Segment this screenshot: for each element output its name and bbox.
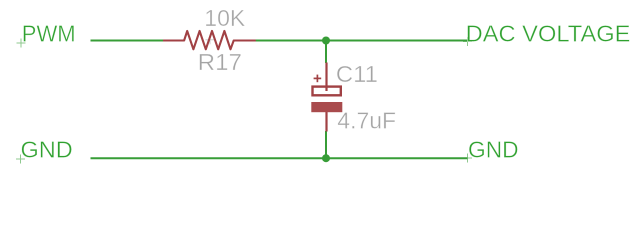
svg-text:4.7uF: 4.7uF — [337, 108, 396, 134]
svg-text:PWM: PWM — [22, 21, 76, 47]
svg-text:C11: C11 — [336, 61, 378, 87]
svg-text:GND: GND — [468, 137, 519, 163]
svg-text:R17: R17 — [198, 49, 242, 75]
svg-text:DAC VOLTAGE: DAC VOLTAGE — [466, 21, 631, 47]
svg-text:10K: 10K — [204, 5, 246, 31]
svg-text:GND: GND — [21, 137, 73, 163]
